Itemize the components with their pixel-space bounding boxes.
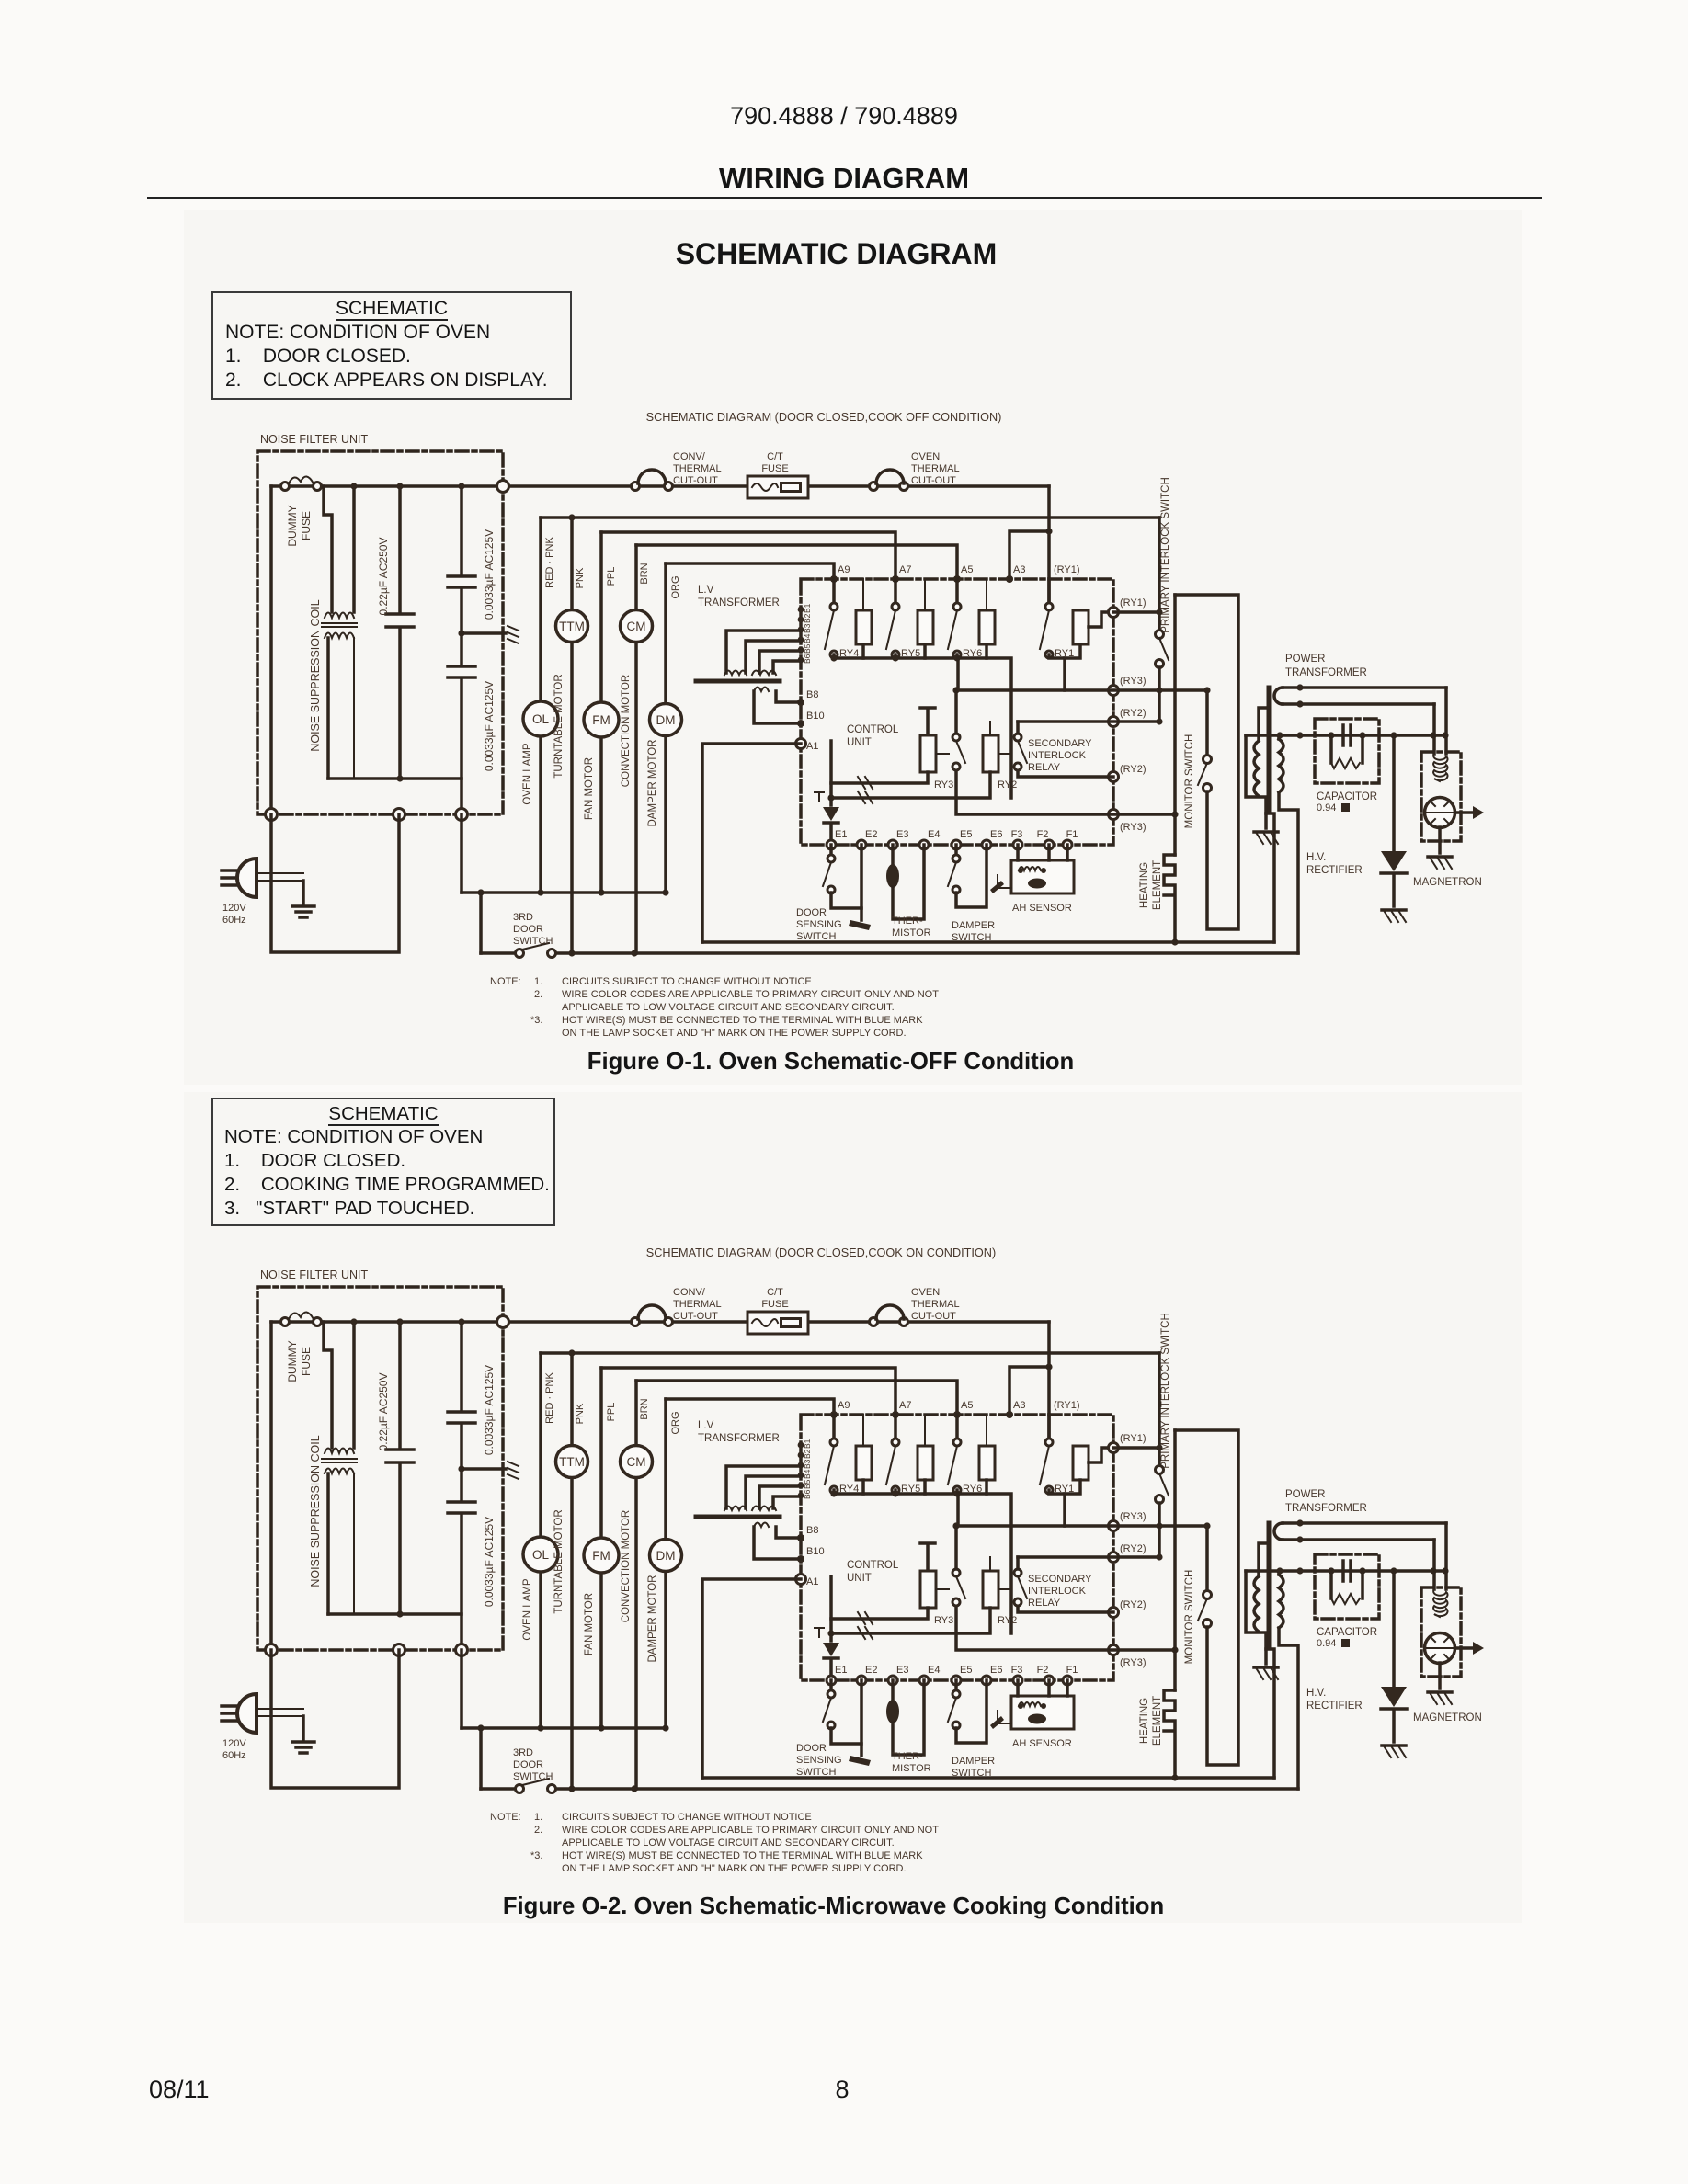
svg-text:SCHEMATIC DIAGRAM (DOOR CLOSED: SCHEMATIC DIAGRAM (DOOR CLOSED,COOK ON C… [646,1246,996,1259]
svg-text:SCHEMATIC DIAGRAM (DOOR CLOSED: SCHEMATIC DIAGRAM (DOOR CLOSED,COOK OFF … [646,411,1002,424]
